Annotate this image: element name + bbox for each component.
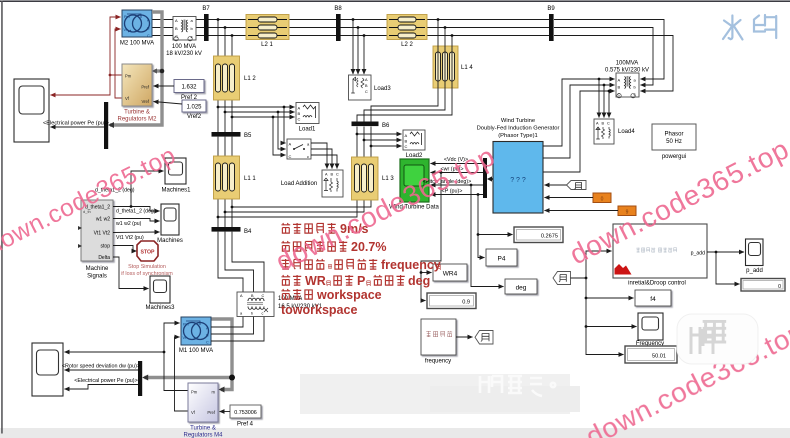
wire Load Addition a to 3-phase load: [311, 143, 327, 169]
wire d_theta to Machines1 and Machines: [113, 171, 164, 207]
wire L1 3 col to Load2 A: [357, 133, 402, 135]
svg-text:w1 w2 (pu): w1 w2 (pu): [116, 221, 142, 227]
From tag into DFIG trip: [567, 181, 587, 190]
svg-text:Pm: Pm: [124, 15, 130, 19]
thick gray wire M1 m to demux bar: [145, 376, 231, 379]
svg-text:WR: WR: [305, 274, 326, 288]
thick gray measurement wire M2 m to demux and T&R M2: [110, 12, 162, 125]
line L2 1: [246, 15, 289, 40]
wire B4 down to transformer3 port B: [225, 232, 254, 292]
svg-text:w1 w2: w1 w2: [96, 217, 110, 223]
constant Vref2: [182, 100, 206, 112]
svg-text:Load3: Load3: [374, 86, 391, 92]
subsystem frequency: [421, 319, 456, 355]
svg-text:20.7%: 20.7%: [351, 240, 386, 254]
subsystem inretial&Droop control: [613, 224, 707, 278]
DFIG m wire to bus selector: [489, 178, 493, 180]
scope Frequency: [638, 313, 663, 340]
annotation line4 WR P deg: [281, 275, 301, 285]
wire column C from top line to B5: [231, 36, 233, 133]
window top border: [0, 1, 790, 2]
svg-text:B6: B6: [382, 123, 390, 129]
svg-text:B4: B4: [244, 229, 252, 235]
wire phase B: transformer1 to B9: [196, 27, 549, 29]
svg-text:STOP: STOP: [140, 250, 155, 256]
svg-text:100 MVA: 100 MVA: [172, 44, 196, 50]
scope Machines1: [165, 158, 186, 184]
demux bar (bus selector) M2: [104, 102, 108, 149]
transformer 100 MVA 16.5 kV/230 kV1: [237, 292, 274, 317]
svg-text:P4: P4: [498, 256, 506, 263]
svg-text:Load2: Load2: [406, 153, 423, 159]
svg-text:Doubly-Fed Induction Generator: Doubly-Fed Induction Generator: [477, 126, 560, 132]
svg-text:L1 2: L1 2: [244, 76, 256, 82]
svg-text:1.632: 1.632: [181, 85, 197, 91]
wire frequency to Goto tag: [456, 336, 473, 338]
thick gray wire M1 m down to T&R M4: [211, 319, 232, 390]
svg-text:c: c: [634, 92, 636, 97]
wire L1 2 column to Load1 C: [232, 116, 295, 118]
subsystem Turbine & Regulators M4: [188, 383, 218, 422]
branch wires to Load4: [598, 79, 600, 118]
svg-text:inretial&Droop control: inretial&Droop control: [628, 281, 686, 287]
wire trunk to f4: [586, 278, 634, 298]
wire column C B5 to B4: [231, 137, 233, 227]
svg-text:toworkspace: toworkspace: [281, 303, 357, 317]
svg-text:Phasor: Phasor: [664, 132, 683, 138]
svg-text:c: c: [262, 312, 264, 316]
svg-text:P: P: [357, 274, 365, 288]
svg-text:C: C: [365, 90, 368, 94]
wire Load Addition c to 3-phase load: [311, 155, 337, 169]
wire Vf net M4 to M1: [175, 337, 189, 411]
svg-text:L1 1: L1 1: [244, 176, 256, 182]
wire phase A: transformer1 to B9: [196, 19, 549, 21]
wire L1 3 col to Load2 C: [371, 145, 402, 147]
svg-text:1.025: 1.025: [186, 105, 202, 111]
block WR4: [433, 264, 467, 281]
wire top line to Load3 A: [352, 20, 354, 75]
bus B7: [204, 14, 209, 41]
svg-text:M2 100 MVA: M2 100 MVA: [120, 41, 154, 47]
svg-text:A: A: [618, 78, 621, 83]
svg-text:deg: deg: [408, 274, 430, 288]
svg-text:0.2675: 0.2675: [541, 234, 558, 240]
svg-text:L1 3: L1 3: [382, 176, 394, 182]
wire branch down to Load Addition B: [278, 112, 286, 149]
svg-text:A: A: [175, 18, 178, 23]
wire pitch tap to deg: [471, 185, 504, 287]
svg-text:A: A: [405, 133, 408, 138]
svg-text:M1 100 MVA: M1 100 MVA: [179, 348, 213, 354]
wire wr to scope: [431, 172, 484, 174]
scope Electrical power M2: [14, 79, 49, 142]
svg-text:Machine: Machine: [86, 266, 109, 272]
transformer 100 MVA 18 kV/230 kV: [173, 17, 196, 41]
svg-text:L2 1: L2 1: [261, 42, 273, 48]
svg-text:WR4: WR4: [443, 271, 458, 278]
wire tie C: [232, 127, 371, 208]
svg-text:Load1: Load1: [299, 127, 316, 133]
svg-text:(Phasor Type)1: (Phasor Type)1: [498, 133, 538, 139]
svg-text:B: B: [175, 26, 178, 31]
junction node on thick gray: [229, 375, 235, 381]
scope Machines: [161, 204, 179, 235]
svg-text:B: B: [298, 111, 301, 116]
svg-text:<Electrical power Pe (pu)>: <Electrical power Pe (pu)>: [74, 378, 138, 384]
wire Delta to Machines3: [113, 257, 149, 289]
svg-text:c: c: [307, 154, 309, 159]
wire trunk to Frequency scope: [586, 298, 637, 327]
scope p_add: [746, 239, 764, 266]
subsystem Turbine & Regulators M2: [122, 64, 152, 106]
wire Load Addition b to 3-phase load: [311, 149, 332, 169]
Goto tag f: [475, 331, 493, 345]
load block Load4: [594, 119, 614, 144]
display 50.01: [625, 346, 677, 363]
svg-text:Pm: Pm: [191, 390, 198, 395]
svg-text:Pm: Pm: [125, 74, 132, 79]
wire top line to Load3 B: [357, 28, 359, 75]
svg-text:A: A: [289, 142, 292, 147]
svg-text:B: B: [618, 85, 621, 90]
svg-text:C: C: [206, 341, 209, 345]
watermark pink diagonal A: [0, 133, 790, 438]
svg-text:C: C: [405, 144, 408, 149]
junction dots on signal wires: [440, 171, 443, 174]
wire phase C: transformer1 to B9: [196, 35, 549, 37]
watermark xianyuhao white text: [480, 376, 555, 396]
wire branch down to Load Addition A: [284, 107, 286, 143]
wire column A B5 to B4: [217, 137, 219, 227]
line L1 1: [214, 156, 240, 199]
wire electrical power to scope: [65, 385, 139, 390]
red wire Vf net: T&R M2 to M2: [115, 29, 122, 98]
bottom light gray patches: [300, 374, 570, 414]
wire M1 phase C to transformer3: [211, 317, 264, 342]
wire M1 phase B to transformer3: [211, 317, 254, 335]
bus B6: [352, 122, 379, 127]
wire Vref2 to T&R M2: [154, 102, 183, 105]
svg-text:Stop Simulation: Stop Simulation: [128, 264, 166, 270]
DFIG phase B wire to transformer2: [543, 85, 615, 158]
DFIG phase A wire to transformer2: [543, 79, 615, 146]
From tag f2: [553, 272, 571, 285]
bus B9: [549, 14, 554, 41]
svg-text:p_add: p_add: [746, 268, 763, 274]
wire tie B: [225, 127, 364, 213]
svg-text:18 kV/230 kV: 18 kV/230 kV: [166, 51, 202, 57]
svg-text:C: C: [262, 294, 265, 298]
svg-text:B8: B8: [334, 6, 342, 12]
svg-text:frequency: frequency: [381, 258, 441, 272]
svg-text:C: C: [147, 34, 150, 38]
junction node on gray wire: [160, 69, 165, 74]
wire Pitch angle to scope: [431, 184, 484, 186]
wire top line to L1 4 col C: [357, 36, 452, 122]
wire orange1 to DFIG: [545, 197, 594, 199]
wire P to scope: [431, 194, 484, 196]
annotation line2 penetration 20.7%: [281, 241, 347, 251]
wire trunk to display 50.01: [586, 327, 624, 355]
DFIG block: [493, 142, 543, 214]
svg-text:workspace: workspace: [316, 288, 382, 302]
svg-text:c: c: [191, 34, 193, 39]
svg-text:Signals: Signals: [87, 274, 107, 280]
svg-text:Regulators M2: Regulators M2: [117, 117, 157, 123]
svg-text:deg: deg: [516, 285, 527, 292]
bus selector bar for DFIG m: [483, 158, 487, 198]
scope Rotor speed / Electrical power M1: [32, 343, 63, 396]
svg-text:C: C: [298, 117, 301, 122]
wire column A from top line to B5: [217, 20, 219, 133]
svg-text:C: C: [618, 92, 621, 97]
svg-text:Vref: Vref: [141, 99, 149, 104]
svg-text:d_theta1_2 (deg): d_theta1_2 (deg): [116, 209, 156, 215]
svg-text:Machines3: Machines3: [145, 305, 175, 311]
STOP block: [137, 241, 158, 261]
watermark xianyu card: [677, 314, 758, 364]
red wire Pm net: T&R M2 to M2 and scope: [110, 17, 122, 75]
load block Load3: [349, 75, 372, 100]
watermark shuiyin top right: [723, 15, 776, 40]
svg-text:0.9: 0.9: [462, 300, 470, 306]
breaker block Load Addition: [287, 139, 311, 159]
svg-text:L2 2: L2 2: [401, 42, 413, 48]
machine M1 100 MVA: [181, 317, 211, 345]
wire branch down to Load Addition C: [273, 117, 286, 155]
svg-text:Load Addition: Load Addition: [281, 181, 317, 187]
wire column B from top line to B5: [224, 28, 226, 133]
block f4: [635, 290, 671, 306]
orange constant 1: [593, 193, 611, 203]
wire rotor speed deviation to scope: [65, 369, 139, 371]
transformer 0.575 kV/230 kV: [616, 73, 639, 98]
bus B8: [336, 14, 341, 41]
svg-text:f4: f4: [650, 296, 656, 303]
svg-text:B7: B7: [202, 6, 210, 12]
svg-text:Wind Turbine: Wind Turbine: [501, 118, 535, 124]
orange constant 2: [618, 206, 636, 216]
svg-text:100MVA: 100MVA: [616, 61, 639, 67]
svg-text:Delta: Delta: [98, 255, 110, 261]
annotation line3 set frequency: [281, 259, 377, 269]
svg-text:L1 4: L1 4: [461, 65, 473, 71]
wire phase B: B9 wrap to transformer2 port b: [554, 28, 653, 86]
wire top line to L1 4 col A: [371, 20, 438, 122]
svg-text:Pref: Pref: [141, 85, 150, 90]
wire L1 3 col to Load2 B: [364, 139, 402, 141]
svg-text:Turbine &: Turbine &: [190, 426, 216, 432]
bus B5: [212, 132, 241, 137]
wire L1 2 column to Load1 A: [218, 106, 295, 108]
svg-text:m: m: [212, 390, 216, 395]
annotation line5 send to workspace: [281, 289, 312, 299]
wire column B B5 to B4: [224, 137, 226, 227]
svg-text:A: A: [298, 106, 301, 111]
svg-text:0.753006: 0.753006: [234, 410, 256, 416]
svg-text:stop: stop: [101, 244, 111, 250]
line L2 2: [387, 15, 427, 40]
svg-text:<Electrical power Pe (pu)>: <Electrical power Pe (pu)>: [43, 121, 109, 127]
wire Pref2 to T&R M2: [154, 85, 175, 87]
svg-text:B5: B5: [244, 133, 252, 139]
bus B4: [212, 227, 241, 232]
wire phase B: M2 to transformer1: [152, 27, 173, 29]
annotation line1 wind speed 9m/s: [281, 223, 335, 233]
wire P tap to display 0.2675 and P4: [478, 195, 485, 258]
constant Pref 2: [174, 80, 204, 93]
svg-text:50.01: 50.01: [652, 354, 666, 360]
wire phase A: M2 to transformer1: [152, 19, 173, 21]
wire Vdc to scope: [431, 163, 484, 165]
svg-text:0: 0: [778, 284, 781, 290]
line L1 2: [214, 56, 240, 100]
svg-text:B: B: [405, 139, 408, 144]
svg-text:Regulators M4: Regulators M4: [183, 433, 223, 438]
svg-text:powergui: powergui: [662, 154, 686, 160]
wire phase C: M2 to transformer1: [152, 35, 173, 37]
line L1 4: [433, 46, 458, 88]
wire L1 2 column to Load1 B: [225, 111, 295, 113]
wire top line to L1 4 col B: [364, 28, 445, 122]
line L1 3: [352, 157, 379, 200]
svg-text:50 Hz: 50 Hz: [666, 139, 682, 145]
block P4: [486, 249, 517, 266]
wire phase C: B9 wrap to transformer2 port c: [554, 36, 673, 92]
powergui block: [652, 124, 696, 150]
svg-text:Machines: Machines: [157, 238, 183, 244]
window left border: [1, 1, 3, 434]
display 0.2675: [514, 227, 563, 243]
svg-text:Pm: Pm: [183, 323, 189, 327]
DFIG phase C wire to transformer2: [543, 91, 615, 172]
wire From tag to DFIG: [545, 184, 567, 186]
wire stop to STOP block: [113, 246, 137, 252]
load block Load1: [296, 103, 319, 124]
load block Load2: [403, 130, 425, 150]
scope Machines3: [150, 276, 170, 303]
demux bar M1: [138, 361, 142, 396]
wire tie A: [218, 127, 357, 218]
constant Pref 4: [230, 405, 261, 418]
svg-text:B9: B9: [547, 6, 555, 12]
svg-text:C: C: [175, 34, 178, 39]
wire phase A: B9 wrap to transformer2 port a: [554, 20, 664, 80]
wire w1 w2 to Machines: [113, 219, 160, 222]
wire B4 down to transformer3 port C: [232, 232, 264, 292]
block deg: [505, 279, 537, 294]
svg-text:p_add: p_add: [691, 251, 706, 257]
wire M1 phase A to transformer3: [211, 317, 243, 328]
wire From tag trunk: [571, 251, 612, 278]
display 0.9: [427, 293, 476, 309]
wire Pe signal to scope with label: [51, 126, 105, 128]
machine M2 100 MVA: [122, 10, 152, 38]
svg-text:Machines1: Machines1: [161, 188, 191, 194]
svg-text:Turbine &: Turbine &: [124, 110, 150, 116]
wire top line to Load3 C: [363, 36, 365, 75]
wire p_add out to scope and display: [707, 251, 744, 253]
svg-text:? ? ?: ? ? ?: [510, 177, 526, 184]
svg-text:C: C: [607, 122, 610, 126]
svg-text:Load4: Load4: [618, 129, 635, 135]
svg-text:C: C: [336, 173, 339, 177]
svg-text:Vt1 Vt2 (pu): Vt1 Vt2 (pu): [116, 235, 144, 241]
subsystem Machine Signals: [78, 200, 113, 261]
svg-text:0: 0: [601, 197, 604, 203]
wire Pm net M4 to M1 with scope branch: [164, 323, 188, 391]
green scope Wind Turbine Data: [400, 159, 429, 202]
wire B4 down to transformer3 port A: [218, 232, 243, 292]
wire wr tap to WR4 and display 0.9: [421, 173, 441, 301]
svg-text:<Rotor speed deviation dw (pu: <Rotor speed deviation dw (pu)>: [62, 364, 140, 370]
svg-text:Vt1 Vt2: Vt1 Vt2: [94, 231, 111, 237]
three-phase load below Load Addition: [322, 170, 343, 197]
svg-text:Pref 4: Pref 4: [237, 422, 254, 428]
svg-text:Pref: Pref: [207, 410, 216, 415]
svg-text:Vref2: Vref2: [187, 114, 202, 120]
svg-text:C: C: [289, 154, 292, 159]
wire Pref4 to T&R M4: [220, 411, 231, 413]
svg-text:b: b: [251, 312, 253, 316]
wire orange2 to DFIG: [545, 210, 619, 212]
wire Vt1 Vt2 to Machines: [113, 231, 160, 234]
svg-text:frequency: frequency: [425, 359, 451, 365]
display p_add value: [741, 279, 785, 292]
